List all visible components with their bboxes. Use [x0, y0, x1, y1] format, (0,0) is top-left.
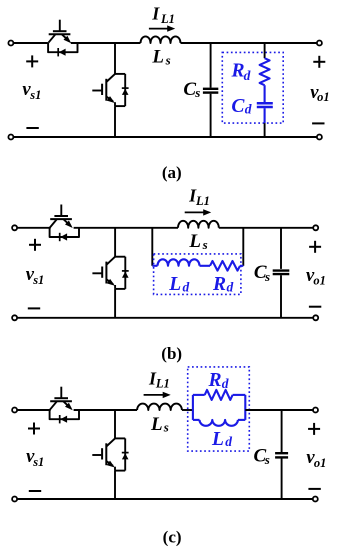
- label Ls (b): [188, 231, 207, 252]
- svg-text:s: s: [165, 53, 171, 68]
- svg-text:d: d: [244, 68, 251, 83]
- label − (a, source): [26, 127, 38, 129]
- wire: (c) RL bottom rail left stub: [193, 419, 200, 421]
- svg-text:s1: s1: [29, 88, 41, 102]
- wire: (b) top rail from Ls to right terminal: [219, 227, 313, 229]
- label Ls (a): [151, 47, 170, 68]
- wire: (b) Cs bottom lead: [280, 275, 282, 318]
- circuit (b) bottom-left terminal: [12, 315, 17, 320]
- wire: (a) damping branch bottom lead: [264, 123, 266, 137]
- svg-text:d: d: [222, 376, 229, 391]
- wire: (c) top rail left segment: [17, 409, 51, 411]
- svg-text:I: I: [151, 4, 160, 24]
- wire: (b) damping branch left vertical: [151, 228, 153, 266]
- circuit (a) bottom-right terminal: [317, 135, 322, 140]
- capacitor Cs (a): [203, 89, 218, 93]
- wire: (b) damping branch right vertical: [242, 228, 244, 266]
- wire: (c) IGBT2 collector lead: [114, 410, 116, 438]
- wire: (c) RL top rail left stub: [193, 394, 205, 396]
- label − (a, output): [312, 122, 324, 124]
- wire: (b) Rd right stub: [240, 265, 243, 267]
- label + (c, output): [308, 423, 320, 435]
- circuit (a) bottom-left terminal: [8, 135, 13, 140]
- IGBT switch S2 (a): [92, 74, 128, 106]
- caption (b): [161, 344, 182, 363]
- label vs1 (b): [26, 265, 45, 287]
- svg-text:o1: o1: [317, 90, 330, 104]
- resistor Rd (c): [205, 390, 233, 400]
- resistor Rd (b): [210, 261, 240, 271]
- label IL1 (c): [148, 368, 170, 390]
- current arrow IL1 (c): [144, 392, 171, 398]
- capacitor Cs (c): [275, 453, 288, 457]
- label + (b, output): [309, 241, 321, 253]
- svg-text:s: s: [202, 237, 208, 252]
- circuit (c) bottom-right terminal: [313, 497, 318, 502]
- svg-text:L: L: [211, 429, 224, 450]
- svg-text:(b): (b): [161, 344, 182, 363]
- current arrow IL1 (b): [185, 209, 212, 215]
- label Rd (c): [208, 370, 229, 391]
- circuit (c) top-right terminal: [313, 408, 318, 413]
- wire: (c) RL network right vertical: [244, 395, 246, 420]
- wire: (c) top rail RL network to right terminal: [245, 409, 313, 411]
- label − (c, source): [29, 490, 41, 492]
- circuit (b) top-right terminal: [313, 225, 318, 230]
- label Cs (c): [254, 445, 270, 467]
- circuit (b) bottom-right terminal: [313, 315, 318, 320]
- damping network box (b): [154, 254, 241, 295]
- label Rd (b): [212, 274, 234, 295]
- label Ls (c): [150, 414, 169, 435]
- svg-text:d: d: [227, 280, 234, 295]
- label IL1 (b): [188, 186, 210, 208]
- label IL1 (a): [151, 4, 175, 27]
- label vo1 (c): [306, 448, 326, 470]
- label Ld (b): [168, 274, 189, 295]
- svg-text:L1: L1: [195, 194, 210, 208]
- svg-text:d: d: [225, 434, 232, 449]
- wire: (c) RL network left vertical: [192, 395, 194, 420]
- label − (c, output): [308, 488, 320, 490]
- label vo1 (b): [306, 266, 326, 288]
- label + (c, source): [28, 423, 40, 435]
- svg-text:C: C: [231, 96, 245, 117]
- wire: (b) Ld to Rd lead: [200, 265, 211, 267]
- IGBT switch S1 (a): [48, 20, 71, 44]
- wire: (b) Cs top lead: [280, 228, 282, 269]
- damping network box (a): [222, 52, 283, 123]
- svg-text:R: R: [212, 274, 226, 295]
- label − (b, output): [309, 306, 321, 308]
- svg-text:o1: o1: [314, 456, 327, 470]
- IGBT switch S1 (b): [50, 205, 73, 229]
- svg-text:L: L: [168, 274, 181, 295]
- wire: (a) top rail from Ls to right terminal: [181, 42, 317, 44]
- svg-text:d: d: [183, 280, 190, 295]
- wire: (b) top rail left segment: [17, 227, 51, 229]
- wire: (a) IGBT2 emitter lead to bottom rail: [114, 106, 116, 137]
- wire: (a) top rail from S1 to inductor Ls: [71, 42, 141, 44]
- caption (a): [162, 163, 182, 182]
- label vo1 (a): [310, 83, 329, 104]
- wire: (c) RL bottom rail right stub: [238, 419, 245, 421]
- antiparallel diode D1 (c): [50, 410, 79, 423]
- wire: (b) IGBT2 collector lead: [114, 228, 116, 257]
- svg-text:s: s: [163, 420, 169, 435]
- IGBT switch S1 (c): [50, 387, 73, 411]
- svg-text:o1: o1: [313, 274, 326, 288]
- damping network box (c): [188, 367, 250, 451]
- inductor Ls (c): [137, 404, 182, 410]
- wire: (a) damping branch top lead: [264, 43, 266, 58]
- svg-text:s: s: [194, 85, 200, 100]
- svg-text:L: L: [151, 47, 164, 68]
- label vs1 (c): [26, 447, 44, 469]
- circuit (b) top-left terminal: [12, 225, 17, 230]
- inductor Ls (a): [141, 36, 181, 43]
- wire: (c) IGBT2 emitter lead to bottom rail: [114, 471, 116, 499]
- wire: (c) Cs bottom lead: [281, 459, 283, 500]
- wire: (a) Cs bottom lead: [210, 94, 212, 137]
- label + (a, source): [26, 55, 38, 67]
- svg-text:L1: L1: [160, 12, 175, 26]
- circuit (c) bottom-left terminal: [12, 497, 17, 502]
- antiparallel diode D1 (a): [48, 43, 77, 56]
- label Rd (a): [231, 61, 251, 84]
- svg-text:s1: s1: [32, 273, 44, 287]
- wire: (a) Cd bottom lead (blue): [264, 108, 266, 123]
- svg-text:s: s: [264, 452, 270, 467]
- wire: (b) bottom rail: [17, 317, 313, 319]
- svg-text:L: L: [188, 231, 201, 252]
- label + (b, source): [29, 239, 41, 251]
- label Cs (a): [183, 79, 200, 100]
- label + (a, output): [313, 56, 325, 68]
- label − (b, source): [28, 307, 40, 309]
- label Cd (a): [231, 96, 251, 117]
- svg-text:R: R: [208, 370, 222, 391]
- svg-text:(c): (c): [163, 528, 182, 547]
- inductor Ld (b): [158, 259, 200, 266]
- wire: (c) top rail from S1 to Ls: [74, 409, 138, 411]
- label Ld (c): [211, 429, 232, 450]
- inductor Ld (c): [200, 420, 238, 426]
- wire: (a) bottom rail: [13, 136, 317, 138]
- IGBT switch S2 (c): [92, 438, 128, 470]
- resistor Rd (a): [260, 58, 270, 85]
- svg-text:L: L: [150, 414, 163, 435]
- circuit (a) top-left terminal: [8, 41, 13, 46]
- svg-text:s1: s1: [32, 455, 44, 469]
- caption (c): [163, 528, 182, 547]
- label vs1 (a): [22, 80, 41, 102]
- svg-text:s: s: [264, 269, 270, 284]
- circuit (a) top-right terminal: [317, 41, 322, 46]
- inductor Ls (b): [178, 221, 219, 228]
- wire: (a) Rd to Cd lead: [264, 85, 266, 102]
- wire: (b) top rail from S1 to Ls: [74, 227, 178, 229]
- antiparallel diode D1 (b): [50, 228, 79, 241]
- wire: (b) damping branch left stub: [152, 265, 157, 267]
- wire: (b) IGBT2 emitter lead to bottom rail: [114, 289, 116, 318]
- capacitor Cd (a): [257, 103, 273, 107]
- wire: (a) IGBT2 collector lead: [114, 43, 116, 74]
- svg-text:L1: L1: [155, 376, 170, 390]
- svg-text:d: d: [245, 101, 252, 116]
- svg-text:(a): (a): [162, 163, 182, 182]
- label Cs (b): [254, 262, 270, 284]
- wire: (c) bottom rail: [17, 498, 313, 500]
- wire: (c) RL top rail right stub: [233, 394, 246, 396]
- capacitor Cs (b): [273, 271, 290, 275]
- svg-text:R: R: [231, 61, 245, 82]
- IGBT switch S2 (b): [92, 257, 128, 289]
- circuit (c) top-left terminal: [12, 408, 17, 413]
- wire: (a) Cs top lead: [210, 43, 212, 88]
- current arrow IL1 (a): [149, 25, 175, 31]
- wire: (c) Cs top lead: [281, 410, 283, 452]
- wire: (c) top rail Ls to RL network: [182, 409, 193, 411]
- wire: (a) top rail left segment: [13, 42, 48, 44]
